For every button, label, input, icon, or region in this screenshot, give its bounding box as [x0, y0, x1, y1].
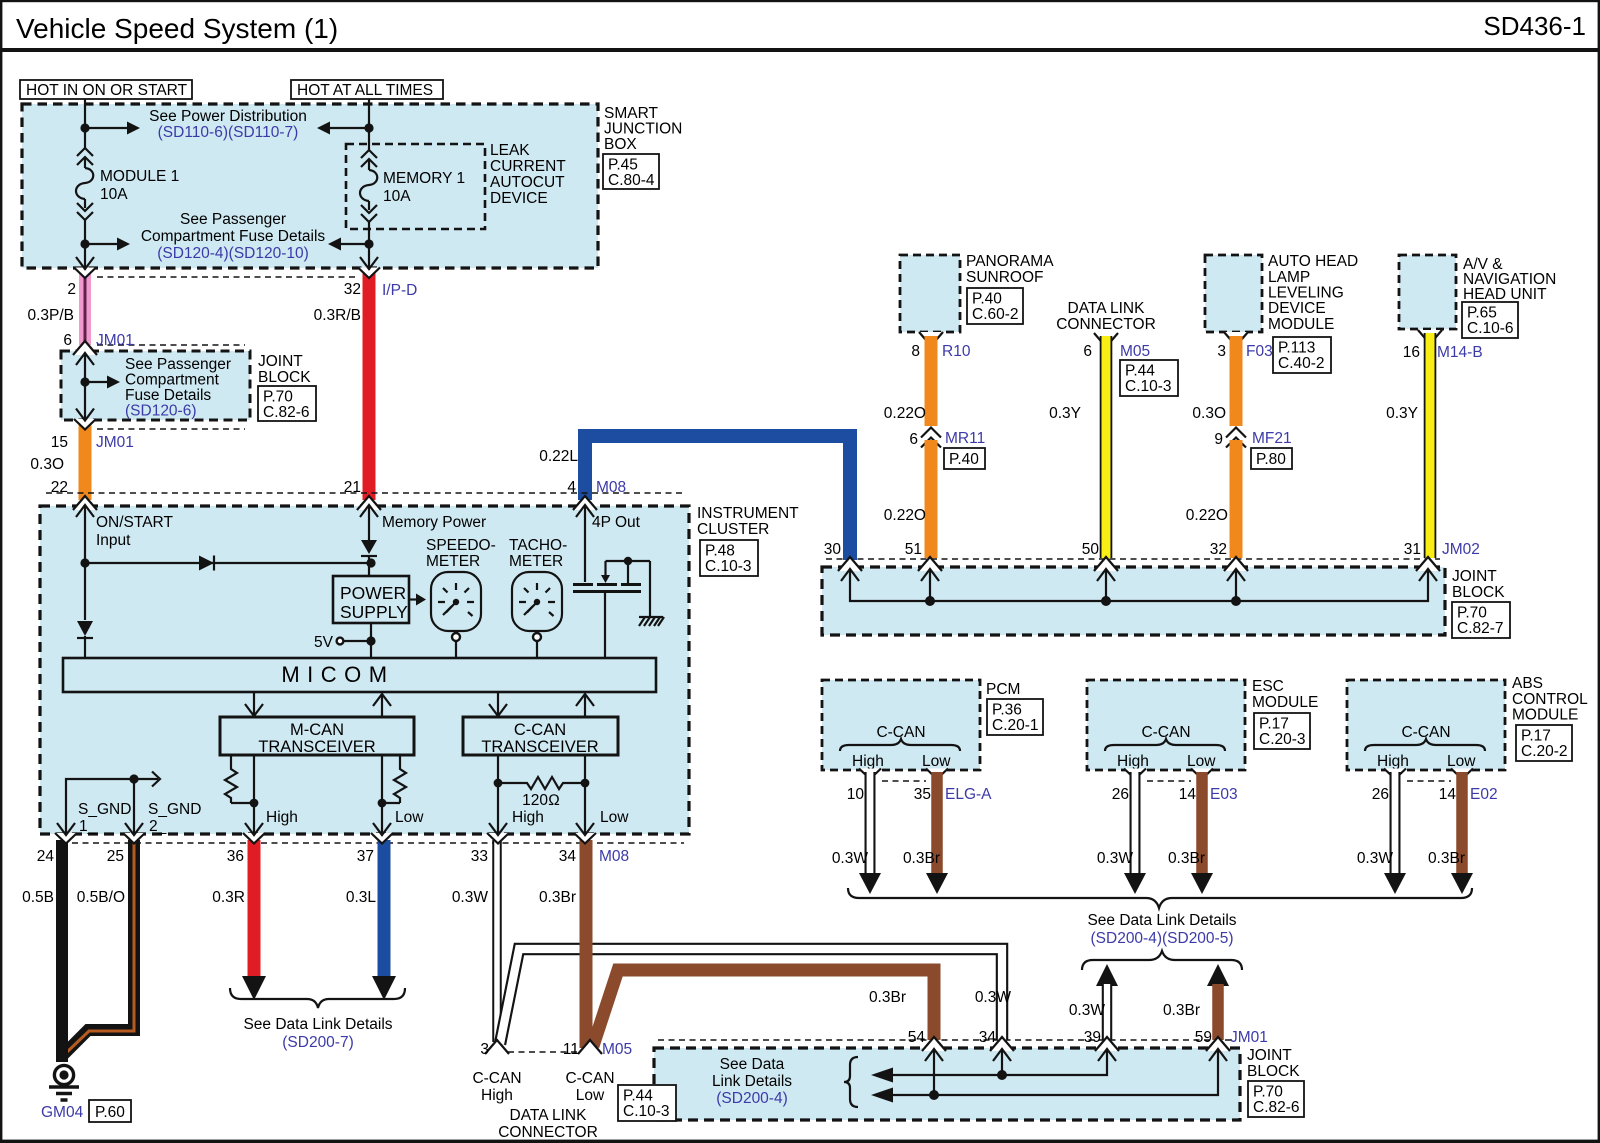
- C-CAN transceiver box: [463, 717, 618, 755]
- instrument cluster box: [40, 506, 689, 834]
- leak current autocut device box: [346, 144, 485, 229]
- pin 31 entry: [1416, 557, 1440, 571]
- pin 4 entry of IC: [573, 496, 597, 510]
- ESC module box: [1087, 680, 1245, 770]
- label box HOT IN ON OR START: [20, 80, 192, 99]
- arrow to See Passenger Compartment Fuse Details (left): [85, 243, 117, 245]
- wire 0.5B black from pin 24 to ground: [56, 840, 68, 1062]
- svg-text:P.45: P.45: [608, 157, 638, 174]
- ABS pin 14 exit: [1451, 769, 1473, 780]
- svg-text:C.82-6: C.82-6: [263, 404, 310, 421]
- svg-text:P.65: P.65: [1467, 305, 1497, 322]
- svg-text:C.20-1: C.20-1: [992, 717, 1039, 734]
- svg-text:4: 4: [567, 479, 576, 496]
- svg-text:32: 32: [1210, 541, 1227, 558]
- svg-text:6: 6: [1083, 343, 1092, 360]
- resistor R2 on M-CAN low: [399, 755, 401, 764]
- svg-text:0.22O: 0.22O: [884, 507, 926, 524]
- svg-text:DATA LINK: DATA LINK: [1068, 300, 1146, 317]
- svg-text:JM01: JM01: [96, 332, 134, 349]
- svg-text:High: High: [266, 809, 298, 826]
- node memory1 bottom: [364, 239, 373, 248]
- speedometer gauge: [431, 572, 481, 658]
- svg-text:59: 59: [1195, 1029, 1212, 1046]
- svg-text:25: 25: [107, 848, 124, 865]
- svg-text:(SD110-6)(SD110-7): (SD110-6)(SD110-7): [158, 124, 299, 141]
- svg-text:120Ω: 120Ω: [522, 792, 560, 809]
- svg-text:10A: 10A: [383, 188, 411, 205]
- svg-text:See Data: See Data: [720, 1056, 785, 1073]
- resistor R3 120ohm: [498, 777, 585, 789]
- svg-text:M-CAN: M-CAN: [290, 721, 344, 739]
- svg-text:0.22L: 0.22L: [539, 448, 578, 465]
- svg-text:0.3W: 0.3W: [1069, 1002, 1106, 1019]
- connector pin 32 exit of SJB: [358, 268, 380, 279]
- wire 0.3W white from bottom joint block pin 34 to DLC pin 3: [500, 949, 1002, 1044]
- pin 34 entry: [990, 1037, 1014, 1051]
- svg-text:CONTROL: CONTROL: [1512, 691, 1588, 708]
- node module1 bottom: [80, 239, 89, 248]
- svg-text:ELG-A: ELG-A: [945, 786, 992, 803]
- arrow MICOM to M-CAN: [253, 692, 255, 715]
- wire 0.3Y yellow from DLC to joint block pin 50: [1100, 336, 1113, 558]
- svg-text:LEVELING: LEVELING: [1268, 285, 1344, 302]
- MICOM block: [63, 658, 656, 692]
- svg-text:AUTOCUT: AUTOCUT: [490, 174, 565, 191]
- PCM box: [822, 680, 980, 770]
- svg-text:39: 39: [1084, 1029, 1101, 1046]
- svg-text:(SD200-4)(SD200-5): (SD200-4)(SD200-5): [1091, 930, 1234, 947]
- svg-text:CONNECTOR: CONNECTOR: [1056, 316, 1156, 333]
- svg-text:JM01: JM01: [96, 434, 134, 451]
- svg-text:14: 14: [1439, 786, 1457, 803]
- svg-text:0.3R: 0.3R: [212, 889, 245, 906]
- wire 0.3Br brown to joint block pin 59: [1212, 984, 1224, 1040]
- svg-text:High: High: [852, 753, 884, 770]
- svg-text:0.3W: 0.3W: [452, 889, 489, 906]
- svg-text:C.40-2: C.40-2: [1278, 355, 1325, 372]
- joint block (right) box: [822, 567, 1445, 635]
- wire 0.5B/O black-orange from pin 25 to ground: [64, 840, 134, 1054]
- ABS pin 26 exit: [1384, 769, 1406, 780]
- wire 0.3Br brown from IC pin 34 to DLC pin 11: [580, 840, 593, 1048]
- svg-text:0.3Br: 0.3Br: [869, 989, 906, 1006]
- wire memory1 to pin 32: [368, 244, 370, 268]
- wire 0.3L blue from pin 37: [378, 840, 391, 976]
- svg-text:0.3W: 0.3W: [975, 989, 1012, 1006]
- tachometer gauge: [512, 572, 562, 658]
- brace grouping: [844, 1057, 858, 1107]
- wire 0.3O orange from JM01 pin15 to IC pin22: [79, 424, 92, 500]
- svg-text:SPEEDO-: SPEEDO-: [426, 537, 496, 554]
- svg-text:C-CAN: C-CAN: [472, 1070, 521, 1087]
- svg-text:DEVICE: DEVICE: [1268, 300, 1326, 317]
- svg-text:50: 50: [1082, 541, 1100, 558]
- connector dashed rows: [97, 276, 358, 278]
- node memory power: [366, 558, 375, 567]
- svg-text:P.44: P.44: [623, 1088, 653, 1105]
- wire from HOT IN box into SJB: [84, 99, 86, 126]
- diode D1 right-pointing: [199, 556, 214, 571]
- DLC pin 11: [578, 1040, 602, 1054]
- DLC pin 3: [485, 1040, 509, 1054]
- svg-text:3: 3: [1217, 343, 1226, 360]
- svg-text:P.70: P.70: [263, 389, 293, 406]
- svg-text:MF21: MF21: [1252, 430, 1292, 447]
- svg-text:C.82-7: C.82-7: [1457, 620, 1504, 637]
- pin 30 entry: [838, 557, 862, 571]
- auto head lamp leveling device module box: [1205, 255, 1262, 332]
- fuse MODULE 1 10A: [84, 128, 86, 148]
- svg-text:LEAK: LEAK: [490, 142, 530, 159]
- svg-text:9: 9: [1214, 431, 1223, 448]
- internal wiring of bottom joint block: [933, 1050, 935, 1095]
- svg-text:0.3O: 0.3O: [30, 456, 64, 473]
- M-CAN high line to pin 36: [253, 755, 255, 835]
- svg-text:0.5B: 0.5B: [22, 889, 54, 906]
- svg-text:2: 2: [67, 281, 76, 298]
- wire 0.3W white from PCM high: [865, 772, 876, 873]
- svg-text:P.40: P.40: [972, 291, 1002, 308]
- wire 0.3R red from pin 36: [248, 840, 261, 976]
- svg-text:C.20-3: C.20-3: [1259, 731, 1306, 748]
- ABS control module box: [1347, 680, 1505, 770]
- arrow to See Passenger Compartment Fuse Details (SD120-6): [85, 381, 107, 383]
- svg-text:PANORAMA: PANORAMA: [966, 253, 1054, 270]
- wire 0.3Br brown branch from DLC pin 11 to bottom joint block pin 54: [593, 970, 934, 1046]
- svg-text:High: High: [512, 809, 544, 826]
- svg-text:0.3P/B: 0.3P/B: [27, 307, 74, 324]
- label box HOT AT ALL TIMES: [291, 80, 443, 99]
- svg-text:22: 22: [51, 479, 68, 496]
- svg-text:16: 16: [1403, 344, 1420, 361]
- svg-text:Low: Low: [395, 809, 424, 826]
- svg-text:34: 34: [559, 848, 577, 865]
- arrow from memory feed to See Power Distribution (right): [330, 127, 369, 129]
- svg-text:BLOCK: BLOCK: [1452, 584, 1505, 601]
- svg-text:MODULE: MODULE: [1268, 316, 1334, 333]
- power supply box: [333, 576, 409, 623]
- wire 0.3Y yellow from A/V to joint block pin 31: [1424, 333, 1437, 558]
- ESC pin 26 exit: [1124, 769, 1146, 780]
- svg-text:SD436-1: SD436-1: [1483, 11, 1586, 41]
- svg-text:P.60: P.60: [95, 1104, 125, 1121]
- svg-text:METER: METER: [426, 553, 480, 570]
- ground inside cluster: [649, 561, 651, 617]
- svg-text:SUNROOF: SUNROOF: [966, 269, 1044, 286]
- svg-text:26: 26: [1372, 786, 1389, 803]
- svg-text:(SD120-4)(SD120-10): (SD120-4)(SD120-10): [157, 245, 309, 262]
- pin 25 exit: [123, 833, 145, 844]
- svg-text:32: 32: [344, 281, 361, 298]
- svg-text:0.3Br: 0.3Br: [903, 850, 940, 867]
- arrow to See Power Distribution (left): [85, 127, 127, 129]
- svg-text:TRANSCEIVER: TRANSCEIVER: [481, 738, 598, 756]
- svg-text:SUPPLY: SUPPLY: [340, 602, 408, 622]
- svg-text:M08: M08: [596, 479, 626, 496]
- C-CAN high line to pin 33: [497, 755, 499, 835]
- wire 0.22O orange from MF21 to joint block pin 32: [1230, 440, 1243, 558]
- svg-text:Low: Low: [1447, 753, 1476, 770]
- brace over pins 39 59: [1082, 951, 1242, 970]
- wire 0.22O orange from panorama to MR11: [925, 336, 938, 426]
- pin 34 exit: [574, 833, 596, 844]
- svg-text:33: 33: [471, 848, 488, 865]
- wire 0.3W white from ESC high: [1130, 772, 1141, 873]
- 4P out wire: [584, 505, 586, 582]
- svg-text:MICOM: MICOM: [281, 662, 394, 687]
- arrow left lower: [871, 1088, 893, 1103]
- svg-text:5V: 5V: [314, 634, 334, 651]
- svg-text:C-CAN: C-CAN: [514, 721, 566, 739]
- auto head lamp pin 3: [1224, 332, 1248, 346]
- M-CAN low line to pin 37: [381, 755, 383, 835]
- svg-text:0.22O: 0.22O: [884, 405, 926, 422]
- svg-text:See Passenger: See Passenger: [125, 356, 231, 373]
- svg-text:PCM: PCM: [986, 681, 1020, 698]
- svg-text:0.3W: 0.3W: [1357, 850, 1394, 867]
- connector dashed line on joint block: [826, 558, 1440, 560]
- svg-text:0.5B/O: 0.5B/O: [77, 889, 125, 906]
- svg-text:Compartment: Compartment: [125, 372, 220, 389]
- svg-text:ABS: ABS: [1512, 675, 1543, 692]
- pin 33 exit: [487, 833, 509, 844]
- svg-text:LAMP: LAMP: [1268, 269, 1310, 286]
- svg-text:MODULE: MODULE: [1512, 707, 1578, 724]
- node ON/START branch: [80, 558, 89, 567]
- joint block bus wire: [850, 570, 1428, 601]
- wire 0.3O orange from module to MF21: [1230, 336, 1243, 426]
- arrow M-CAN to MICOM: [381, 694, 383, 717]
- svg-text:C.10-3: C.10-3: [1125, 378, 1172, 395]
- svg-text:0.3Y: 0.3Y: [1386, 405, 1418, 422]
- wire 0.3R/B red from pin32 to IC pin21: [363, 272, 376, 500]
- svg-text:Compartment Fuse Details: Compartment Fuse Details: [141, 228, 326, 245]
- svg-text:21: 21: [344, 479, 361, 496]
- svg-text:M14-B: M14-B: [1437, 344, 1483, 361]
- svg-text:4P Out: 4P Out: [592, 514, 641, 531]
- svg-text:37: 37: [357, 848, 374, 865]
- M-CAN transceiver box: [220, 717, 414, 755]
- svg-text:0.3O: 0.3O: [1192, 405, 1226, 422]
- wire 0.3W white from ABS high: [1390, 772, 1401, 873]
- arrow end of blue wire: [372, 976, 396, 1000]
- svg-text:CONNECTOR: CONNECTOR: [498, 1124, 598, 1141]
- node on memory1 feed: [364, 123, 373, 132]
- brace see data link details SD200-4 SD200-5: [848, 888, 1472, 908]
- pin 50 entry: [1094, 557, 1118, 571]
- svg-text:C.82-6: C.82-6: [1253, 1099, 1300, 1116]
- panorama pin 8: [919, 332, 943, 346]
- in-line connector MF21: [1228, 427, 1244, 443]
- svg-text:14: 14: [1179, 786, 1197, 803]
- svg-text:6: 6: [63, 332, 72, 349]
- svg-text:6: 6: [909, 431, 918, 448]
- arrow from power supply to meters: [409, 598, 416, 600]
- svg-text:P.70: P.70: [1253, 1084, 1283, 1101]
- svg-text:F03: F03: [1246, 343, 1273, 360]
- svg-text:TRANSCEIVER: TRANSCEIVER: [258, 738, 375, 756]
- svg-text:P.113: P.113: [1278, 340, 1315, 357]
- svg-text:CLUSTER: CLUSTER: [697, 521, 769, 538]
- svg-text:MODULE 1: MODULE 1: [100, 168, 179, 185]
- wire 0.22O orange from MR11 to joint block pin 51: [925, 440, 938, 558]
- svg-text:Input: Input: [96, 532, 131, 549]
- svg-text:Low: Low: [600, 809, 629, 826]
- svg-text:Link Details: Link Details: [712, 1073, 792, 1090]
- svg-text:0.3W: 0.3W: [1097, 850, 1134, 867]
- svg-text:S_GND: S_GND: [148, 801, 201, 818]
- svg-text:POWER: POWER: [340, 583, 406, 603]
- connector dashed rows bottom: [72, 842, 684, 844]
- svg-text:Fuse Details: Fuse Details: [125, 387, 211, 404]
- pin 36 exit: [243, 833, 265, 844]
- pin 32 entry: [1224, 557, 1248, 571]
- svg-text:Low: Low: [1187, 753, 1216, 770]
- svg-text:0.3R/B: 0.3R/B: [314, 307, 361, 324]
- diode D3 down on memory line: [361, 540, 377, 554]
- arrow left upper: [871, 1068, 893, 1083]
- pin 22 entry of IC: [73, 496, 97, 510]
- wire 0.3Br brown from ABS low: [1456, 772, 1468, 873]
- svg-text:1_: 1_: [79, 818, 97, 835]
- ON/START input wire: [84, 505, 86, 620]
- PCM pin 10 exit: [859, 769, 881, 780]
- svg-text:M05: M05: [1120, 343, 1150, 360]
- DLC reference box P.44 C.10-3: [618, 1085, 676, 1121]
- svg-text:Vehicle Speed System (1): Vehicle Speed System (1): [16, 13, 338, 44]
- svg-text:INSTRUMENT: INSTRUMENT: [697, 505, 799, 522]
- svg-text:P.17: P.17: [1259, 716, 1289, 733]
- wire 0.3W white from pin 33 to DLC pin 3: [492, 840, 502, 1042]
- page border frame: [0, 0, 1600, 2]
- svg-text:BOX: BOX: [604, 136, 637, 153]
- svg-text:E02: E02: [1470, 786, 1498, 803]
- svg-text:P.36: P.36: [992, 702, 1022, 719]
- svg-text:P.70: P.70: [1457, 605, 1487, 622]
- resistor R1 on M-CAN high: [230, 755, 232, 764]
- svg-text:C.10-6: C.10-6: [1467, 320, 1514, 337]
- bottom joint block box: [654, 1048, 1240, 1120]
- pin 54 entry: [922, 1037, 946, 1051]
- in-line connector MR11: [923, 427, 939, 443]
- node inside joint block: [80, 377, 89, 386]
- svg-text:26: 26: [1112, 786, 1129, 803]
- svg-text:54: 54: [908, 1029, 926, 1046]
- ground GM04: [54, 1065, 73, 1084]
- wire from HOT AT ALL TIMES box into SJB: [368, 99, 370, 126]
- pin 59 entry: [1206, 1037, 1230, 1051]
- pin 6 entry of JM01: [73, 341, 97, 355]
- svg-text:Low: Low: [576, 1087, 605, 1104]
- svg-text:GM04: GM04: [41, 1104, 84, 1121]
- node on module1 feed: [80, 123, 89, 132]
- svg-text:(SD120-6): (SD120-6): [125, 403, 197, 420]
- svg-text:P.44: P.44: [1125, 363, 1155, 380]
- svg-text:(SD200-7): (SD200-7): [282, 1034, 354, 1051]
- arrow C-CAN to MICOM: [584, 694, 586, 717]
- svg-text:0.3Br: 0.3Br: [1163, 1002, 1200, 1019]
- svg-text:HEAD UNIT: HEAD UNIT: [1463, 286, 1547, 303]
- svg-text:36: 36: [227, 848, 244, 865]
- svg-text:0.3W: 0.3W: [832, 850, 869, 867]
- wire 0.3Br brown from ESC low: [1196, 772, 1208, 873]
- svg-text:HOT AT ALL TIMES: HOT AT ALL TIMES: [297, 82, 433, 99]
- svg-text:E03: E03: [1210, 786, 1238, 803]
- svg-text:R10: R10: [942, 343, 971, 360]
- svg-text:ESC: ESC: [1252, 678, 1284, 695]
- arrow MICOM to C-CAN: [497, 692, 499, 715]
- svg-text:MODULE: MODULE: [1252, 694, 1318, 711]
- svg-text:JOINT: JOINT: [1452, 568, 1497, 585]
- svg-text:31: 31: [1404, 541, 1421, 558]
- wire 0.3P/B pink from pin2 to JM01 pin6: [79, 272, 91, 345]
- svg-text:JUNCTION: JUNCTION: [604, 121, 682, 138]
- svg-text:2_: 2_: [149, 818, 167, 835]
- svg-text:C.80-4: C.80-4: [608, 172, 655, 189]
- svg-text:3: 3: [480, 1041, 489, 1058]
- svg-text:10A: 10A: [100, 186, 128, 203]
- fuse MEMORY 1 10A: [368, 128, 370, 150]
- ESC pin 14 exit: [1191, 769, 1213, 780]
- svg-text:0.3Y: 0.3Y: [1049, 405, 1081, 422]
- svg-text:24: 24: [37, 848, 55, 865]
- svg-text:High: High: [481, 1087, 513, 1104]
- svg-text:Low: Low: [922, 753, 951, 770]
- svg-text:34: 34: [979, 1029, 997, 1046]
- wire inside joint block: [84, 352, 86, 420]
- svg-text:C.10-3: C.10-3: [623, 1103, 670, 1120]
- svg-text:DEVICE: DEVICE: [490, 190, 548, 207]
- S_GND node and wires: [129, 774, 138, 783]
- svg-text:JOINT: JOINT: [258, 353, 303, 370]
- svg-text:TACHO-: TACHO-: [509, 537, 567, 554]
- wire 0.22L blue from IC pin4 to joint block pin30: [585, 436, 850, 560]
- svg-text:AUTO HEAD: AUTO HEAD: [1268, 253, 1358, 270]
- svg-text:CURRENT: CURRENT: [490, 158, 566, 175]
- wire 0.3Br brown from PCM low: [931, 772, 943, 873]
- svg-text:M05: M05: [602, 1041, 632, 1058]
- PCM pin 35 exit: [926, 769, 948, 780]
- connector pin 2 exit of SJB: [74, 268, 96, 279]
- svg-text:SMART: SMART: [604, 105, 659, 122]
- joint block (SD120-6) box: [61, 351, 250, 420]
- memory power wire: [368, 505, 370, 540]
- A/V and navigation head unit box: [1399, 255, 1456, 329]
- svg-text:C.60-2: C.60-2: [972, 306, 1019, 323]
- svg-text:MEMORY 1: MEMORY 1: [383, 170, 465, 187]
- svg-text:High: High: [1117, 753, 1149, 770]
- arrow end of red wire: [242, 976, 266, 1000]
- svg-text:35: 35: [914, 786, 931, 803]
- svg-text:51: 51: [905, 541, 922, 558]
- bus nodes: [925, 596, 935, 606]
- svg-text:JM02: JM02: [1442, 541, 1480, 558]
- svg-text:0.22O: 0.22O: [1186, 507, 1228, 524]
- arrow from memory bottom (right): [341, 243, 369, 245]
- svg-text:P.17: P.17: [1521, 728, 1551, 745]
- wire branch to memory power node: [85, 562, 371, 564]
- pin 24 exit: [55, 833, 77, 844]
- svg-text:P.48: P.48: [705, 543, 735, 560]
- svg-text:See Data Link Details: See Data Link Details: [243, 1016, 392, 1033]
- A/V pin 16: [1418, 330, 1442, 344]
- output transistor Q1: [606, 560, 651, 562]
- svg-text:MR11: MR11: [945, 430, 985, 447]
- svg-text:High: High: [1377, 753, 1409, 770]
- svg-text:15: 15: [51, 434, 68, 451]
- svg-text:8: 8: [911, 343, 920, 360]
